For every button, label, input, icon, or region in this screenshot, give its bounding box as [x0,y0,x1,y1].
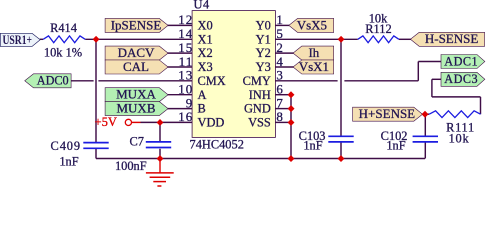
svg-text:VsX1: VsX1 [299,59,329,74]
svg-text:13: 13 [178,68,193,83]
svg-text:USR1+: USR1+ [3,32,32,47]
svg-text:15: 15 [178,40,193,55]
svg-text:1nF: 1nF [59,155,78,169]
svg-text:Y3: Y3 [256,60,271,74]
svg-text:100nF: 100nF [115,159,147,173]
svg-text:12: 12 [178,12,193,27]
svg-text:MUXA: MUXA [116,87,156,102]
svg-text:X2: X2 [198,46,213,60]
svg-text:R414: R414 [50,21,77,35]
svg-text:Y2: Y2 [256,46,271,60]
svg-text:5: 5 [276,26,284,41]
svg-text:6: 6 [276,82,284,97]
svg-text:B: B [198,102,206,116]
svg-text:ADC3: ADC3 [444,72,478,86]
svg-text:Ih: Ih [308,45,319,60]
svg-text:10: 10 [178,82,193,97]
svg-text:INH: INH [249,88,271,102]
svg-text:C409: C409 [51,139,81,153]
svg-text:Y0: Y0 [256,19,271,33]
svg-text:A: A [198,88,207,102]
svg-text:VDD: VDD [198,116,225,130]
svg-text:CMY: CMY [243,74,271,88]
svg-text:10k 1%: 10k 1% [44,46,82,60]
svg-text:14: 14 [178,26,193,41]
svg-text:9: 9 [186,95,194,110]
svg-text:IpSENSE: IpSENSE [111,17,162,32]
svg-text:1: 1 [276,12,284,27]
svg-text:ADC1: ADC1 [444,54,478,68]
svg-text:ADC0: ADC0 [37,74,69,88]
svg-text:+5V: +5V [95,115,118,129]
svg-text:CAL: CAL [123,59,149,74]
svg-text:74HC4052: 74HC4052 [190,138,244,152]
svg-text:8: 8 [276,109,284,124]
svg-text:11: 11 [179,54,194,69]
svg-text:U4: U4 [194,0,210,12]
svg-text:C7: C7 [130,135,144,149]
svg-text:X1: X1 [198,32,213,46]
svg-text:Y1: Y1 [256,32,271,46]
svg-text:16: 16 [178,109,193,124]
svg-text:1nF: 1nF [303,139,322,153]
svg-text:X3: X3 [198,60,213,74]
svg-text:R112: R112 [365,22,391,36]
svg-text:VsX5: VsX5 [297,17,327,32]
svg-text:4: 4 [276,54,284,69]
svg-text:7: 7 [276,95,284,110]
svg-text:3: 3 [276,68,284,83]
svg-text:CMX: CMX [198,74,226,88]
svg-text:VSS: VSS [248,116,271,130]
svg-text:MUXB: MUXB [116,101,155,116]
svg-text:GND: GND [244,102,271,116]
svg-text:H+SENSE: H+SENSE [359,106,416,121]
svg-text:H-SENSE: H-SENSE [425,31,479,46]
svg-text:X0: X0 [198,19,213,33]
svg-text:DACV: DACV [118,45,155,60]
svg-text:1nF: 1nF [386,139,405,153]
svg-text:2: 2 [276,40,284,55]
svg-text:10k: 10k [449,131,470,145]
